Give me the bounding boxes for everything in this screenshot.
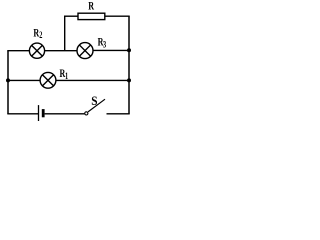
wire top row right [93, 49, 129, 51]
label S [91, 94, 98, 109]
switch S terminal circle [85, 112, 88, 115]
wire left vertical [7, 51, 9, 114]
svg-text:S: S [91, 94, 98, 109]
wire R branch right [105, 15, 130, 17]
wire middle row left [7, 79, 40, 81]
wire R branch vertical [64, 16, 66, 51]
label R1 [60, 68, 66, 81]
lamp R2 [29, 43, 44, 58]
svg-text:2: 2 [39, 30, 42, 40]
wire bottom row middle [45, 113, 85, 115]
label R [88, 0, 94, 13]
lamp R1 [40, 72, 56, 88]
switch S blade [88, 99, 105, 112]
wire middle row right [56, 79, 130, 81]
battery short plate [42, 109, 45, 117]
wire right vertical [128, 16, 130, 114]
label R3 [98, 36, 104, 49]
wire bottom row right [107, 113, 130, 115]
svg-text:R: R [88, 0, 94, 13]
wire top row left [7, 50, 29, 52]
junction dot node right-top [127, 48, 131, 52]
background [0, 0, 137, 129]
wire R branch left [64, 15, 78, 17]
svg-text:3: 3 [103, 39, 106, 49]
resistor R [78, 13, 105, 19]
wire top row middle [45, 50, 78, 52]
junction dot node left-middle [6, 78, 10, 82]
lamp R3 [77, 43, 93, 59]
wire bottom row left [7, 113, 38, 115]
battery long plate [38, 105, 40, 121]
label R2 [33, 27, 39, 40]
junction dot node right-middle [127, 78, 131, 82]
